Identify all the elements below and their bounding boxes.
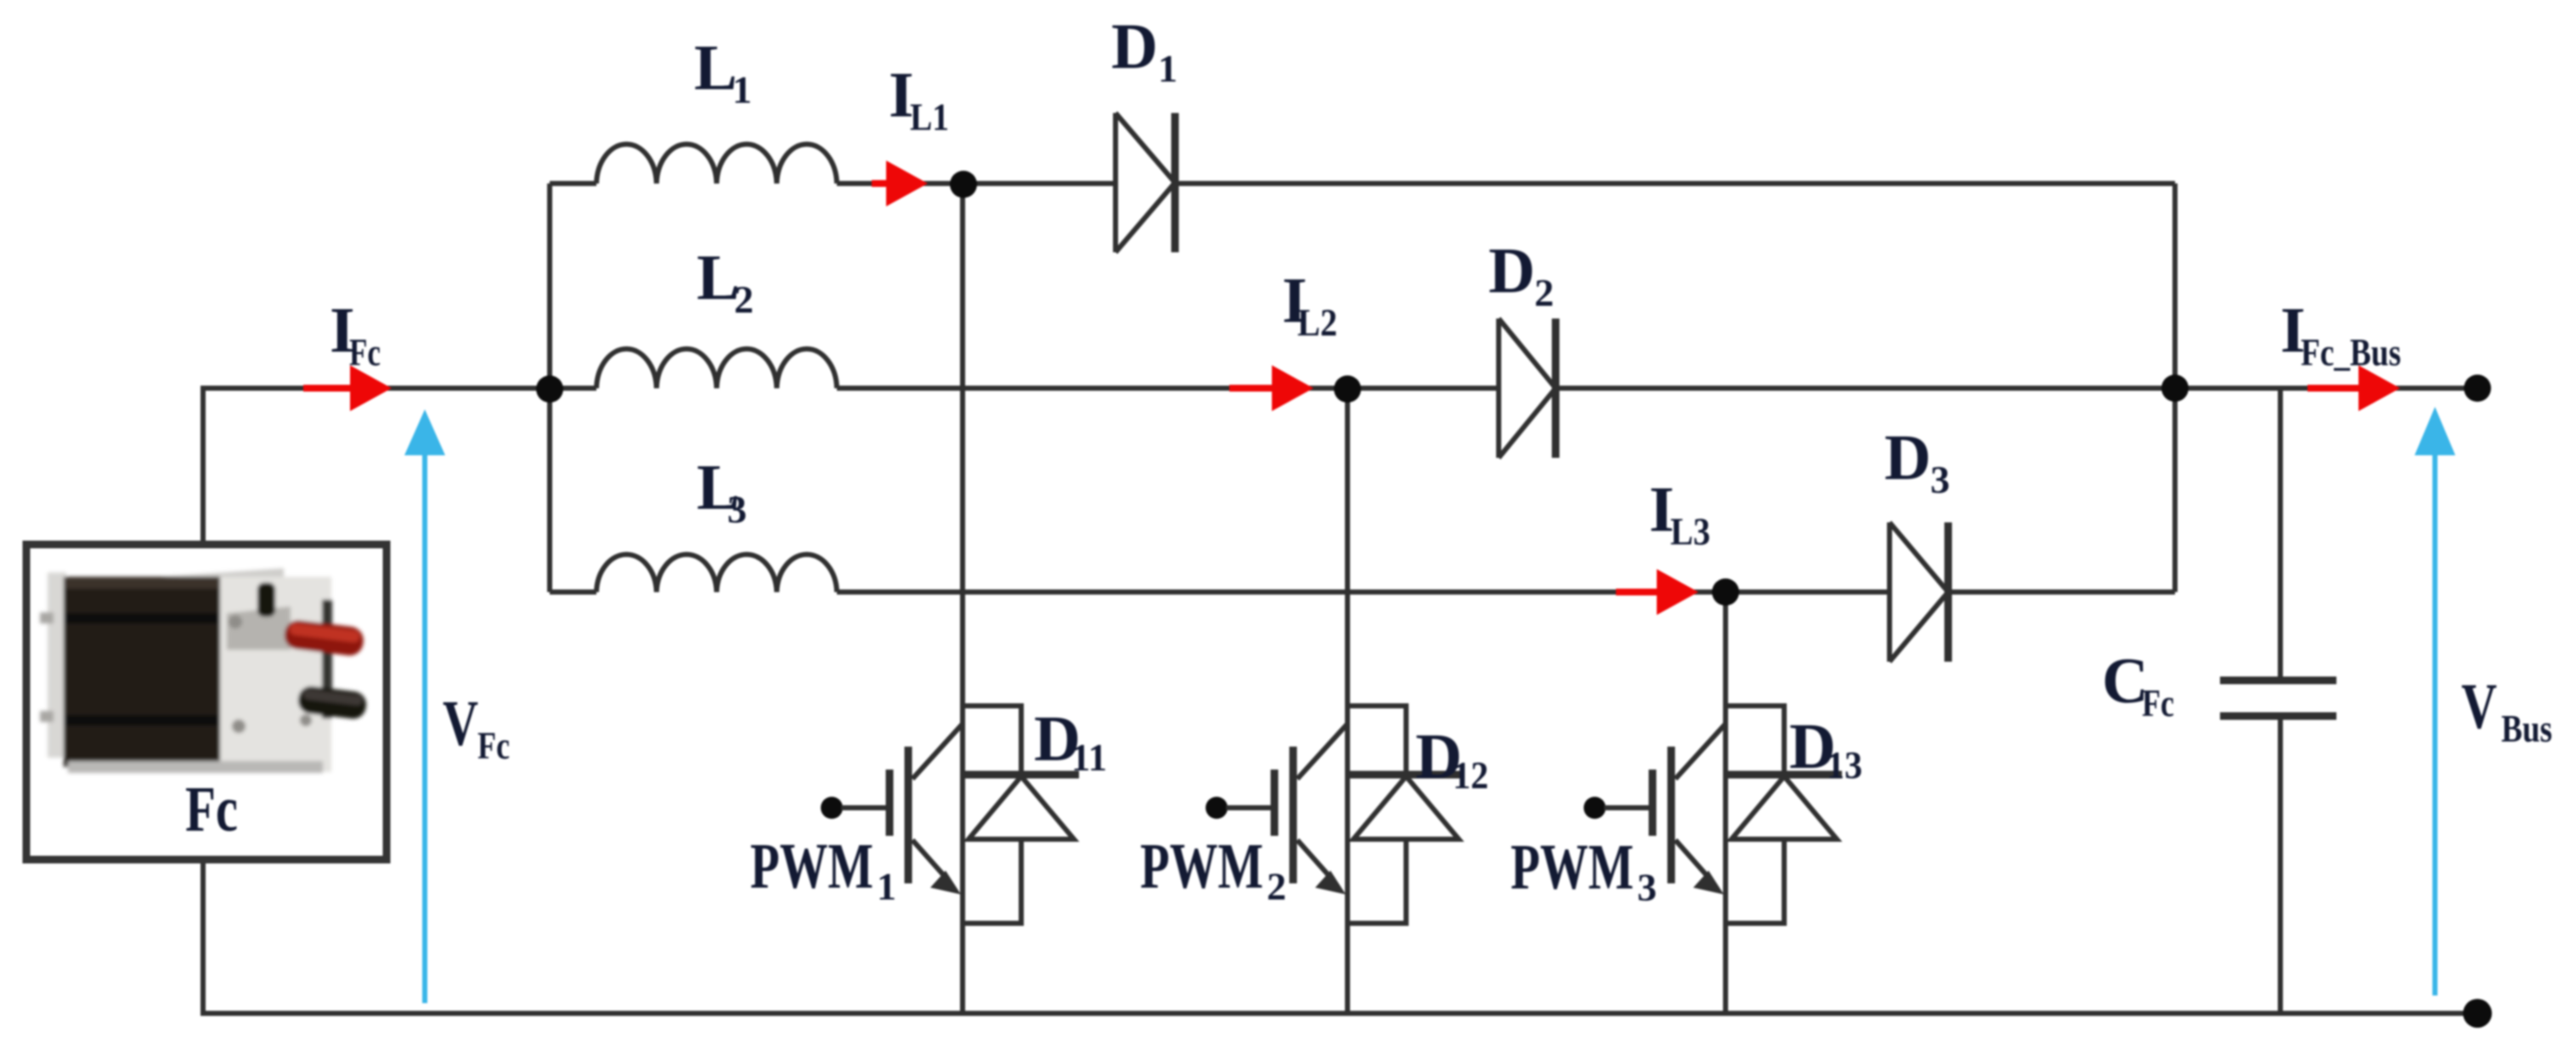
svg-text:L: L — [694, 32, 737, 104]
svg-text:1: 1 — [1158, 47, 1178, 90]
svg-text:C: C — [2102, 646, 2149, 717]
svg-text:D: D — [1884, 422, 1931, 493]
svg-text:D: D — [1111, 11, 1158, 82]
svg-text:D: D — [1489, 235, 1535, 307]
svg-text:L3: L3 — [1670, 510, 1710, 553]
svg-text:V: V — [443, 688, 478, 759]
svg-text:L: L — [697, 242, 740, 313]
svg-text:3: 3 — [1637, 866, 1657, 909]
svg-text:3: 3 — [1930, 458, 1950, 501]
svg-text:I: I — [330, 295, 355, 366]
svg-text:D: D — [1415, 721, 1462, 792]
svg-text:D: D — [1789, 711, 1836, 782]
svg-text:I: I — [1649, 474, 1675, 545]
svg-text:Fc: Fc — [477, 724, 510, 767]
svg-text:I: I — [2280, 295, 2306, 366]
svg-text:Fc: Fc — [185, 774, 238, 845]
svg-text:PWM: PWM — [1511, 832, 1634, 903]
svg-text:2: 2 — [1534, 271, 1554, 314]
svg-text:2: 2 — [1267, 865, 1286, 908]
svg-text:Bus: Bus — [2501, 707, 2552, 750]
svg-text:Fc_Bus: Fc_Bus — [2301, 330, 2401, 374]
svg-text:V: V — [2461, 671, 2497, 742]
svg-text:I: I — [889, 59, 914, 131]
svg-text:D: D — [1034, 703, 1081, 775]
svg-text:PWM: PWM — [1140, 831, 1263, 902]
svg-text:L: L — [697, 452, 740, 523]
svg-text:I: I — [1282, 265, 1308, 336]
svg-text:1: 1 — [877, 865, 896, 908]
svg-text:L1: L1 — [910, 95, 949, 138]
svg-text:PWM: PWM — [750, 831, 873, 902]
